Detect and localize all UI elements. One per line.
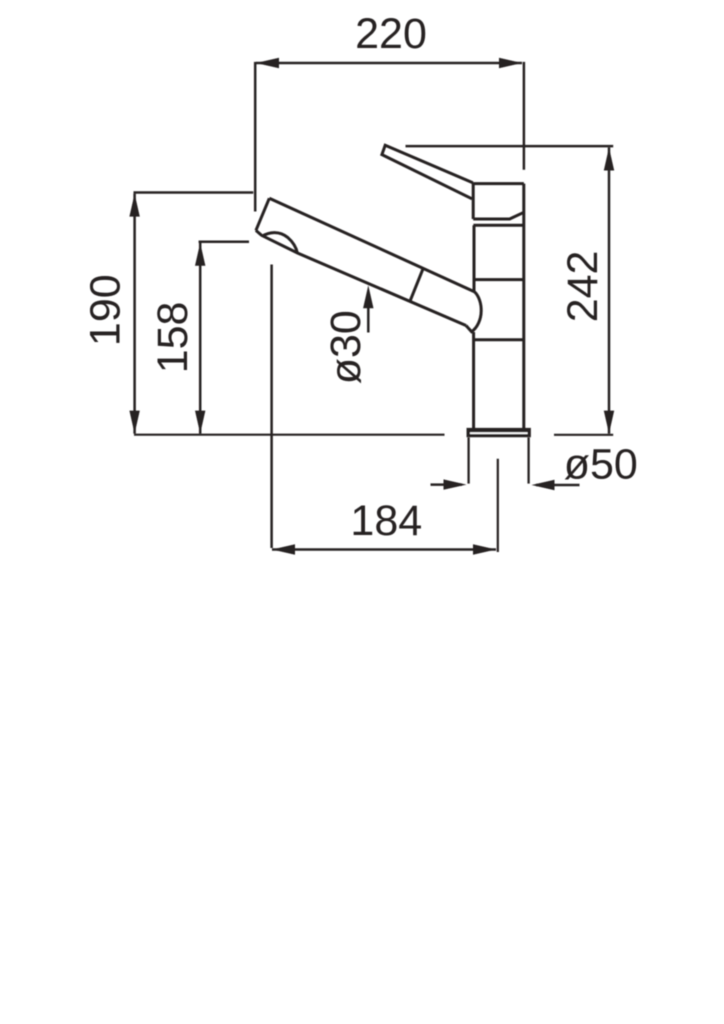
svg-text:ø50: ø50	[564, 441, 638, 489]
svg-text:184: 184	[350, 497, 422, 545]
column division upper	[474, 278, 524, 281]
column right edge	[522, 184, 525, 429]
arrowhead 242 top	[604, 148, 614, 171]
arrowhead 220 left	[256, 58, 279, 68]
arrowhead 158 bottom	[195, 411, 205, 434]
spout bottom edge	[256, 230, 466, 325]
dim 220 left extension	[254, 62, 257, 212]
shank right edge	[527, 438, 529, 484]
arrowhead o50 left	[444, 479, 467, 489]
svg-text:158: 158	[149, 302, 197, 374]
arrowhead 184 left	[272, 544, 295, 554]
svg-text:ø30: ø30	[322, 310, 370, 384]
counter reference line right	[554, 434, 613, 436]
dim 158 line	[199, 243, 202, 434]
dim 220 right extension	[523, 62, 526, 170]
arrowhead 220 right	[499, 58, 522, 68]
dim 184 line	[272, 548, 496, 551]
handle cap (top block)	[473, 184, 524, 219]
spout outlet face	[256, 198, 269, 230]
dim 190 line	[133, 194, 136, 434]
counter reference line left	[134, 434, 445, 436]
dim 242 line	[608, 148, 611, 434]
arrowhead o50 right	[532, 480, 555, 490]
dim o50 left arrow shaft	[431, 483, 463, 486]
dim o30 arrow shaft	[367, 306, 370, 333]
svg-text:220: 220	[355, 10, 427, 58]
dim 184 left extension	[270, 265, 273, 549]
svg-text:190: 190	[82, 274, 130, 346]
arrowhead 190 bottom	[129, 411, 139, 434]
arrowhead o30	[363, 285, 373, 308]
shank left edge	[467, 438, 469, 484]
spout top edge	[269, 198, 474, 291]
handle lever	[382, 145, 473, 199]
arrowhead 184 right	[473, 544, 496, 554]
column left edge lower	[472, 332, 475, 428]
arrowhead 158 top	[195, 243, 205, 266]
neck ring line	[473, 224, 523, 227]
spout-head junction line	[410, 268, 423, 301]
dim 242 top extension	[406, 145, 614, 148]
spout elbow bulge into column	[466, 292, 481, 332]
base flange	[467, 429, 530, 437]
dim 190 top extension	[134, 191, 254, 194]
dim 220 line	[256, 62, 522, 65]
svg-text:242: 242	[559, 251, 607, 323]
spout aerator arc	[262, 233, 297, 254]
dim o50 right arrow shaft	[536, 484, 580, 487]
arrowhead 190 top	[129, 194, 139, 217]
arrowhead 242 bottom	[604, 411, 614, 434]
dim 158 top extension	[199, 240, 249, 243]
shank centerline	[497, 459, 499, 552]
column division lower	[474, 338, 524, 341]
column left edge upper	[473, 225, 476, 291]
